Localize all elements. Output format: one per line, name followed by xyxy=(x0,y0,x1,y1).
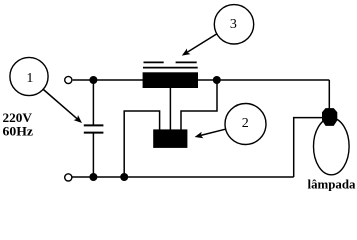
wire starter right branch xyxy=(181,80,217,130)
arrow from 2 to starter xyxy=(195,129,226,138)
node junction top right of ballast xyxy=(213,76,221,84)
svg-text:lâmpada: lâmpada xyxy=(308,176,356,191)
lamp bulb ellipse xyxy=(314,118,350,175)
wire capacitor lower lead xyxy=(92,133,94,177)
svg-text:60Hz: 60Hz xyxy=(3,124,34,139)
callout circle 3 xyxy=(214,5,253,44)
wire lamp top lead xyxy=(328,80,330,109)
terminal bottom-left xyxy=(65,174,72,181)
wire starter center lead to ballast xyxy=(169,88,171,130)
callout circle 2 xyxy=(225,104,266,145)
wire bottom horizontal xyxy=(72,176,294,178)
arrow from 3 to ballast xyxy=(182,34,217,56)
terminal top-left xyxy=(65,76,72,83)
svg-text:3: 3 xyxy=(230,17,237,32)
wire lamp left lead xyxy=(294,118,323,177)
node junction top capacitor xyxy=(89,76,97,84)
svg-text:1: 1 xyxy=(26,71,33,86)
capacitor C plates xyxy=(84,125,104,132)
wire capacitor upper lead xyxy=(92,80,94,125)
wire starter left branch xyxy=(124,111,159,177)
ballast (reator) body xyxy=(143,72,198,88)
svg-text:220V: 220V xyxy=(3,110,33,125)
arrow from 1 to capacitor xyxy=(43,90,82,124)
wire top horizontal xyxy=(73,79,330,81)
callout circle 1 xyxy=(10,57,48,95)
ballast core line short left xyxy=(144,61,164,63)
node junction bottom capacitor xyxy=(89,173,97,181)
svg-text:2: 2 xyxy=(242,116,249,131)
ballast core line long xyxy=(143,67,198,69)
starter body xyxy=(153,129,187,148)
node junction bottom starter branch xyxy=(120,173,128,181)
lamp base hexagon xyxy=(322,108,337,126)
ballast core line short right xyxy=(176,61,197,63)
